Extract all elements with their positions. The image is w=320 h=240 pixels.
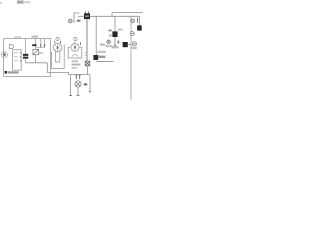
fan motor 2 with shroud bbox=[68, 43, 82, 58]
fan2 id circle bbox=[74, 41, 76, 43]
pin tick right of circle bbox=[137, 18, 139, 23]
wire fuse row bbox=[78, 13, 143, 17]
connector blob C bbox=[123, 42, 128, 47]
node label top-left text bbox=[0, 1, 30, 4]
wire V2 fuse down bbox=[86, 19, 88, 61]
fan1 wires below (nested U) bbox=[52, 45, 65, 69]
wire from box bottom to route bbox=[47, 63, 68, 75]
capacitor stack component bbox=[23, 39, 35, 63]
fan1 pins bbox=[55, 41, 61, 44]
text block left of V2 bbox=[72, 60, 81, 68]
inner relay box bbox=[13, 50, 22, 70]
pin ticks left of V2 bbox=[85, 53, 87, 56]
ground circle right bbox=[132, 42, 136, 46]
small component box with diagonal bbox=[33, 39, 39, 63]
label dash 13A bbox=[32, 44, 36, 46]
fan2 pin bbox=[79, 42, 81, 45]
wire V5 drop bbox=[139, 16, 141, 25]
battery plus symbol circle bbox=[68, 19, 72, 23]
wire pin link bbox=[36, 46, 44, 48]
arrow text bbox=[100, 44, 105, 46]
lamp pins bbox=[76, 75, 79, 80]
top rail bbox=[68, 74, 90, 76]
splice box with X on V2 bbox=[85, 61, 90, 66]
connector blob on V1 bbox=[93, 55, 98, 60]
wire V2 lower bbox=[87, 66, 89, 75]
wire 30 feed stub bbox=[74, 13, 80, 23]
fan1 id circle bbox=[56, 37, 59, 40]
wire color circle top right bbox=[131, 19, 135, 23]
motor M circle left bbox=[2, 52, 8, 58]
component blob on V3 bbox=[108, 29, 122, 37]
lamp bulb bbox=[75, 81, 81, 87]
pin tick V3 bottom bbox=[114, 44, 116, 48]
D-tab connector bbox=[9, 45, 13, 49]
connector blob on V5 bbox=[137, 25, 142, 30]
lamp bottom drop bbox=[77, 87, 79, 95]
wire V4 down long bbox=[130, 16, 132, 100]
left drop bbox=[70, 75, 72, 96]
fan motor 1 bbox=[53, 43, 62, 52]
wire junction horizontal bbox=[96, 61, 113, 63]
connector text C1939 bbox=[5, 71, 19, 74]
fuse F1 bbox=[84, 11, 90, 19]
left control unit box bbox=[4, 39, 51, 77]
dash label bbox=[84, 83, 87, 85]
plus circle left bbox=[107, 40, 111, 44]
right drop bbox=[89, 75, 91, 92]
wire V3 down bbox=[114, 16, 116, 44]
connector pins cluster above bottom bbox=[100, 40, 137, 49]
lamp cluster bbox=[68, 75, 91, 96]
tiny text in box right bbox=[39, 52, 43, 54]
text block right of V1 bbox=[97, 51, 106, 58]
pin lines right of box bbox=[41, 39, 45, 44]
label above box bbox=[32, 36, 38, 38]
wire horizontal inside box bbox=[26, 62, 48, 64]
wire color circle mid right bbox=[130, 32, 134, 36]
node label 30 bbox=[77, 20, 81, 22]
wire V1 down bbox=[95, 16, 97, 55]
